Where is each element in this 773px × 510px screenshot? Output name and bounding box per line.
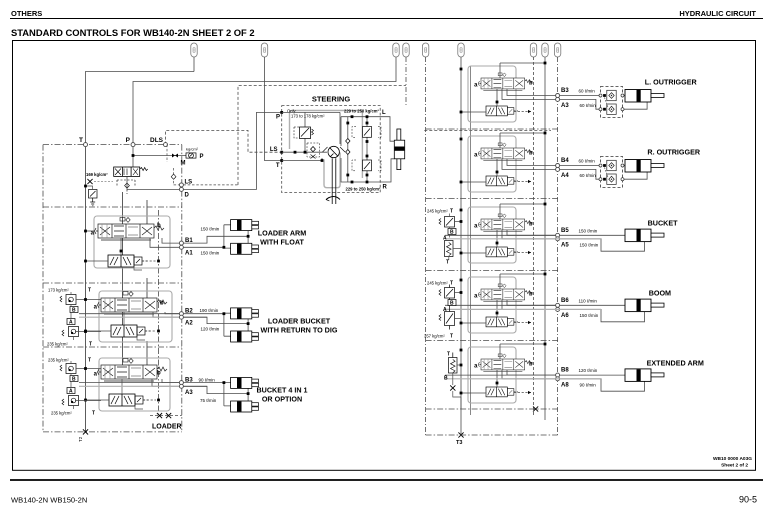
svg-text:BOOM: BOOM — [649, 289, 671, 298]
svg-text:A: A — [69, 320, 73, 326]
svg-text:D: D — [185, 193, 190, 199]
svg-text:LOADER ARM: LOADER ARM — [258, 229, 306, 238]
svg-text:b: b — [529, 81, 533, 87]
svg-text:A8: A8 — [561, 382, 569, 388]
svg-text:LOADER: LOADER — [152, 424, 182, 431]
svg-text:DLS: DLS — [150, 137, 164, 144]
svg-text:173 kg/cm²: 173 kg/cm² — [48, 288, 69, 293]
svg-text:STANDARD CONTROLS FOR WB140-2N: STANDARD CONTROLS FOR WB140-2N SHEET 2 O… — [11, 27, 255, 38]
svg-text:150 ℓ/min: 150 ℓ/min — [580, 242, 599, 247]
svg-text:T: T — [88, 288, 91, 294]
svg-text:150 ℓ/min: 150 ℓ/min — [201, 251, 220, 256]
svg-text:R. OUTRIGGER: R. OUTRIGGER — [647, 148, 701, 157]
svg-text:169 kg/cm²: 169 kg/cm² — [86, 172, 108, 177]
svg-text:b: b — [157, 371, 161, 377]
svg-text:T: T — [447, 352, 450, 358]
svg-text:B5: B5 — [561, 228, 569, 234]
svg-text:WB10 0000 A03G: WB10 0000 A03G — [713, 456, 752, 462]
svg-text:A3: A3 — [185, 390, 193, 396]
svg-text:Sheet 2 of 2: Sheet 2 of 2 — [721, 463, 748, 469]
svg-text:b: b — [157, 223, 161, 229]
svg-text:a: a — [94, 372, 98, 378]
svg-text:A5: A5 — [561, 242, 569, 248]
svg-text:R: R — [383, 185, 388, 191]
svg-text:P: P — [276, 115, 280, 121]
svg-text:90 ℓ/min: 90 ℓ/min — [580, 382, 597, 387]
svg-text:B4: B4 — [561, 158, 569, 164]
svg-text:90-5: 90-5 — [739, 495, 757, 505]
svg-text:a: a — [474, 294, 478, 300]
svg-text:b: b — [529, 222, 533, 228]
svg-text:B: B — [72, 308, 76, 314]
svg-text:T: T — [450, 281, 453, 287]
svg-text:A4: A4 — [561, 173, 569, 179]
svg-text:a: a — [94, 305, 98, 311]
svg-text:b: b — [160, 301, 164, 307]
svg-text:LS: LS — [270, 147, 278, 153]
svg-text:OTHERS: OTHERS — [11, 9, 42, 18]
svg-text:120 ℓ/min: 120 ℓ/min — [201, 327, 220, 332]
svg-text:WITH FLOAT: WITH FLOAT — [260, 238, 304, 247]
svg-text:B8: B8 — [561, 368, 569, 374]
svg-text:BUCKET 4 IN 1: BUCKET 4 IN 1 — [256, 386, 307, 395]
svg-text:235 kg/cm²: 235 kg/cm² — [48, 358, 69, 363]
svg-text:L. OUTRIGGER: L. OUTRIGGER — [645, 78, 698, 87]
svg-text:B6: B6 — [561, 298, 569, 304]
svg-text:B: B — [450, 230, 454, 236]
svg-text:b: b — [529, 292, 533, 298]
svg-text:T: T — [79, 137, 83, 144]
svg-text:P: P — [126, 137, 131, 144]
svg-text:235 kg/cm²: 235 kg/cm² — [47, 342, 68, 347]
svg-text:T: T — [92, 411, 95, 417]
svg-text:A2: A2 — [185, 321, 193, 327]
svg-text:T: T — [450, 209, 453, 215]
svg-text:60 ℓ/min: 60 ℓ/min — [580, 173, 597, 178]
svg-text:60 ℓ/min: 60 ℓ/min — [579, 159, 596, 164]
svg-text:kg/cm²: kg/cm² — [186, 147, 199, 152]
svg-text:A6: A6 — [561, 313, 569, 319]
svg-text:229 to 250 kg/cm²: 229 to 250 kg/cm² — [346, 187, 382, 192]
svg-text:STEERING: STEERING — [312, 95, 351, 104]
svg-text:B: B — [450, 301, 454, 307]
svg-text:b: b — [529, 151, 533, 157]
svg-text:190 ℓ/min: 190 ℓ/min — [200, 308, 219, 313]
svg-text:T: T — [446, 260, 449, 266]
svg-text:120 ℓ/min: 120 ℓ/min — [579, 368, 598, 373]
svg-text:b: b — [529, 362, 533, 368]
svg-text:T3: T3 — [456, 440, 462, 446]
svg-text:A1: A1 — [185, 251, 193, 257]
svg-text:229 to 250 kg/cm²: 229 to 250 kg/cm² — [344, 109, 380, 114]
svg-text:OR OPTION: OR OPTION — [262, 395, 302, 404]
svg-text:150 ℓ/min: 150 ℓ/min — [580, 313, 599, 318]
svg-text:WB140-2N WB150-2N: WB140-2N WB150-2N — [11, 495, 87, 504]
svg-text:WITH RETURN TO DIG: WITH RETURN TO DIG — [261, 326, 338, 335]
svg-text:B3: B3 — [561, 88, 569, 94]
svg-text:BUCKET: BUCKET — [648, 219, 679, 228]
svg-text:T: T — [450, 334, 453, 340]
svg-text:a: a — [474, 224, 478, 230]
svg-text:T: T — [88, 358, 91, 364]
svg-text:90 ℓ/min: 90 ℓ/min — [199, 378, 216, 383]
svg-text:235 kg/cm²: 235 kg/cm² — [51, 411, 72, 416]
svg-text:LOADER BUCKET: LOADER BUCKET — [268, 317, 331, 326]
svg-text:245 kg/cm²: 245 kg/cm² — [427, 281, 448, 286]
svg-text:B: B — [444, 376, 448, 382]
svg-text:173 to 178 kg/cm²: 173 to 178 kg/cm² — [291, 114, 325, 119]
svg-text:60 ℓ/min: 60 ℓ/min — [579, 89, 596, 94]
svg-text:A: A — [443, 236, 447, 242]
svg-text:110 ℓ/min: 110 ℓ/min — [579, 298, 598, 303]
svg-text:150 ℓ/min: 150 ℓ/min — [579, 228, 598, 233]
svg-text:EXTENDED ARM: EXTENDED ARM — [647, 359, 704, 368]
svg-text:75 ℓ/min: 75 ℓ/min — [200, 398, 217, 403]
svg-text:P: P — [200, 154, 204, 160]
svg-text:T: T — [276, 163, 280, 169]
svg-text:T: T — [89, 342, 92, 348]
svg-text:a: a — [474, 364, 478, 370]
svg-text:HYDRAULIC CIRCUIT: HYDRAULIC CIRCUIT — [679, 9, 756, 18]
svg-text:60 ℓ/min: 60 ℓ/min — [580, 103, 597, 108]
svg-text:M: M — [181, 161, 186, 167]
svg-text:a: a — [474, 153, 478, 159]
svg-text:a: a — [474, 83, 478, 89]
svg-text:B: B — [72, 377, 76, 383]
svg-text:T2: T2 — [78, 436, 83, 442]
svg-text:A: A — [443, 307, 447, 313]
svg-text:357 kg/cm²: 357 kg/cm² — [424, 334, 445, 339]
svg-text:A: A — [69, 389, 73, 395]
svg-text:150 ℓ/min: 150 ℓ/min — [201, 227, 220, 232]
svg-text:245 kg/cm²: 245 kg/cm² — [427, 209, 448, 214]
svg-text:L: L — [382, 110, 386, 116]
svg-text:A3: A3 — [561, 103, 569, 109]
